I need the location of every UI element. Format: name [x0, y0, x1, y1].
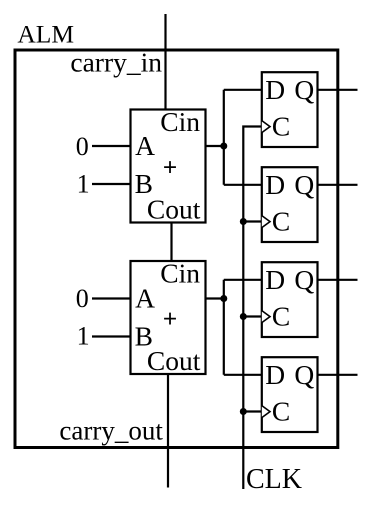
svg-text:Q: Q [294, 359, 314, 390]
svg-text:1: 1 [77, 322, 90, 351]
svg-text:A: A [135, 283, 155, 314]
svg-text:D: D [265, 74, 285, 105]
svg-text:CLK: CLK [246, 464, 302, 495]
svg-text:A: A [135, 130, 155, 161]
svg-text:+: + [163, 153, 178, 182]
svg-text:D: D [265, 169, 285, 200]
svg-text:Q: Q [294, 264, 314, 295]
svg-text:Cin: Cin [160, 106, 200, 137]
svg-text:Q: Q [294, 74, 314, 105]
svg-text:carry_in: carry_in [70, 47, 162, 78]
svg-text:0: 0 [76, 284, 89, 313]
svg-text:Q: Q [294, 169, 314, 200]
svg-text:ALM: ALM [17, 20, 74, 49]
svg-text:0: 0 [76, 132, 89, 161]
svg-text:carry_out: carry_out [59, 415, 163, 445]
svg-text:C: C [272, 206, 290, 237]
svg-text:Cout: Cout [147, 345, 201, 376]
svg-text:D: D [265, 359, 285, 390]
svg-text:1: 1 [77, 169, 90, 198]
svg-text:C: C [272, 301, 290, 332]
svg-text:Cout: Cout [147, 193, 201, 224]
svg-text:D: D [265, 264, 285, 295]
svg-text:+: + [163, 304, 178, 333]
svg-text:C: C [272, 396, 290, 427]
svg-text:Cin: Cin [160, 258, 200, 289]
svg-text:C: C [272, 111, 290, 142]
